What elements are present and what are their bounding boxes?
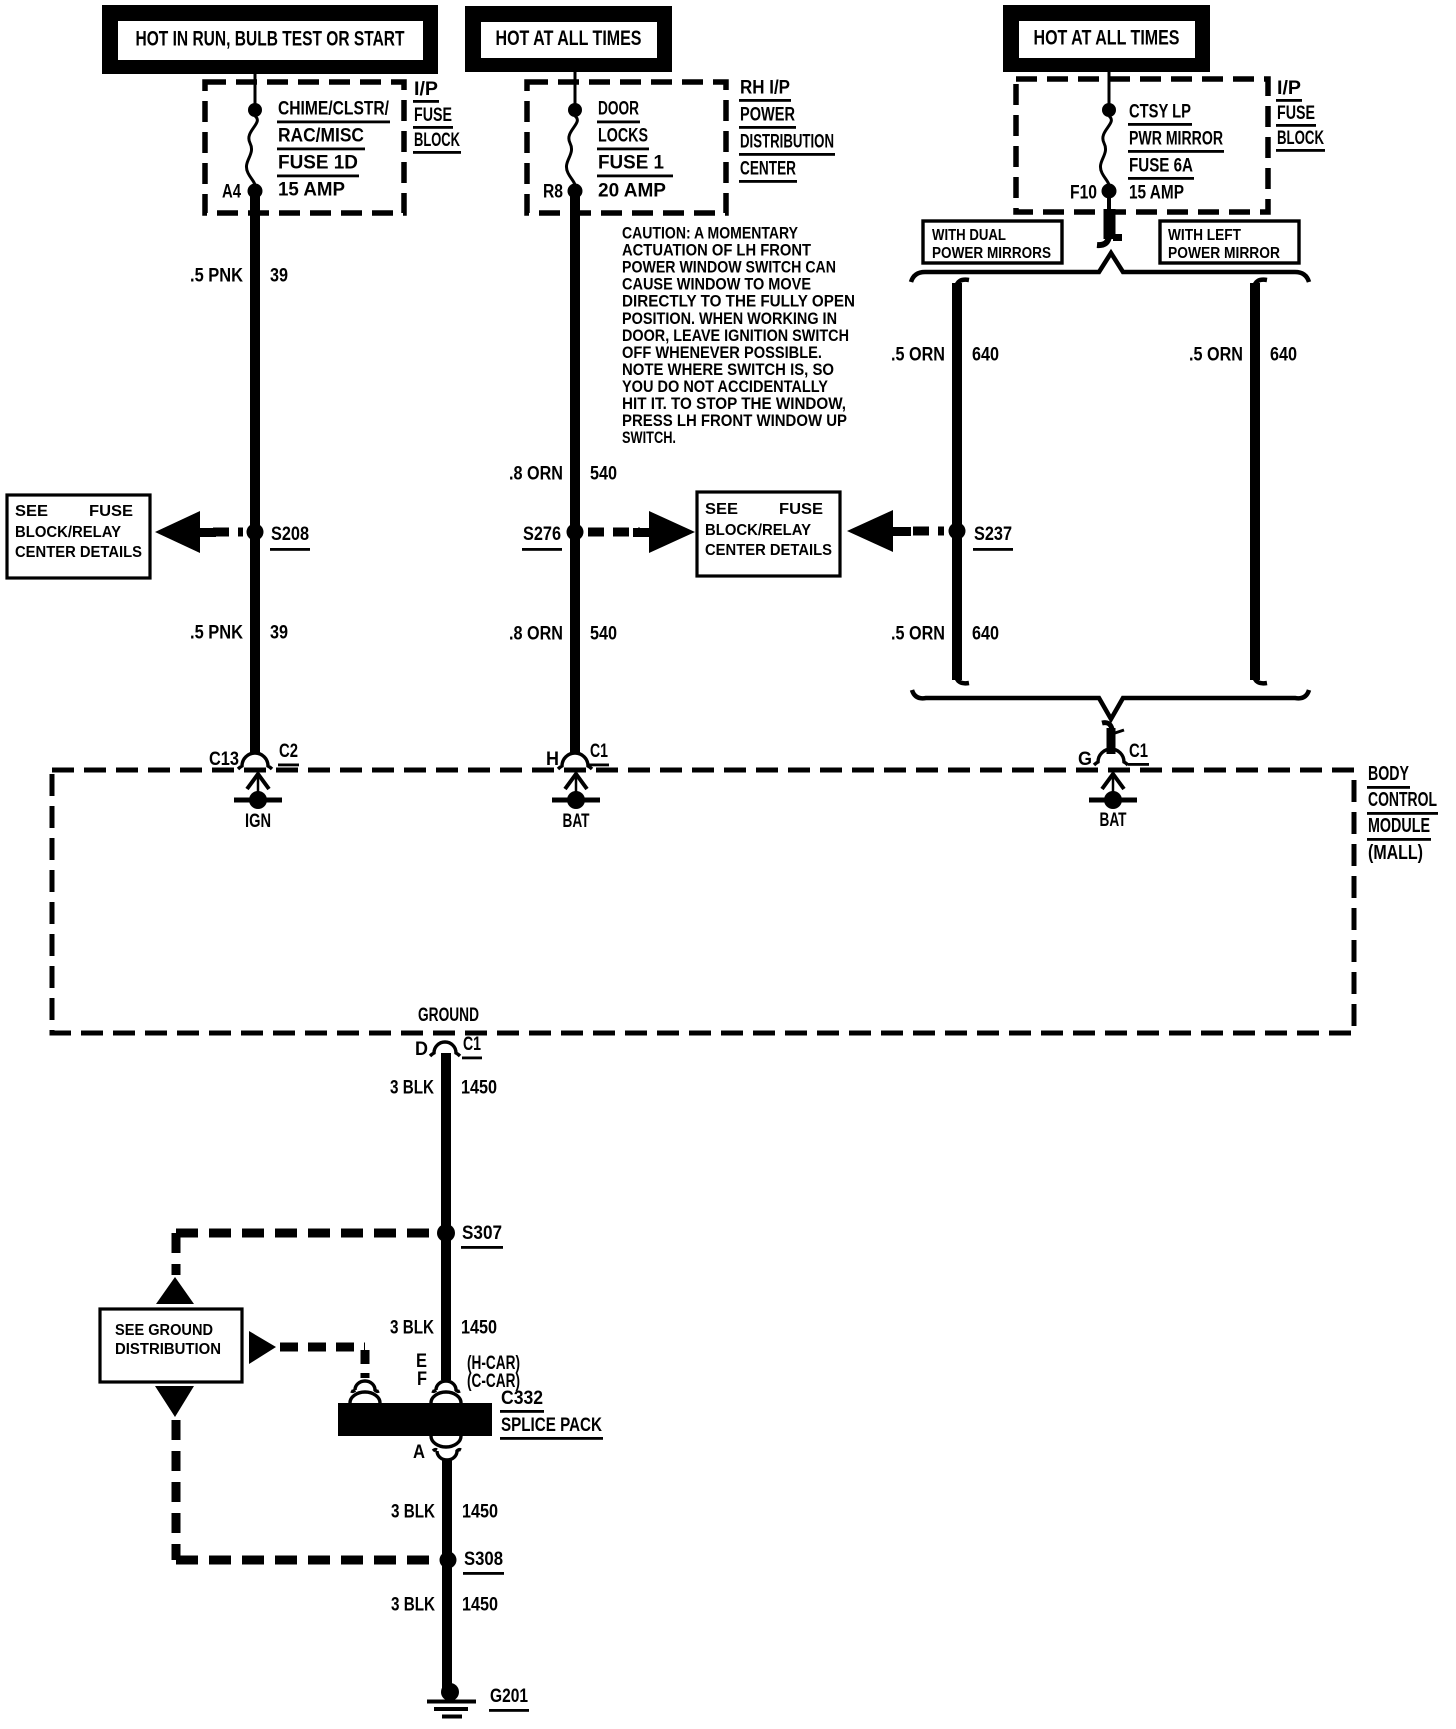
- svg-text:1450: 1450: [462, 1502, 498, 1523]
- svg-text:3 BLK: 3 BLK: [390, 1318, 434, 1339]
- svg-text:.5 PNK: .5 PNK: [190, 266, 243, 287]
- I/P fuse block dashed boundary (DOOR LOCKS FUSE 1): [527, 82, 726, 213]
- wire .5 ORN 640 (left power mirror branch): [1254, 280, 1267, 684]
- svg-text:540: 540: [590, 464, 617, 485]
- svg-text:POWER MIRRORS: POWER MIRRORS: [932, 245, 1051, 262]
- svg-text:.5 PNK: .5 PNK: [190, 623, 243, 644]
- connector stub below fuse 6A: [1097, 196, 1122, 245]
- splice S276 junction: [567, 524, 584, 541]
- connector C332 pin E terminal arcs: [350, 1381, 380, 1403]
- svg-text:CENTER DETAILS: CENTER DETAILS: [15, 544, 142, 561]
- svg-text:POWER: POWER: [740, 105, 795, 126]
- svg-text:BAT: BAT: [1100, 810, 1127, 831]
- svg-text:C332: C332: [501, 1388, 543, 1409]
- svg-text:CENTER DETAILS: CENTER DETAILS: [705, 542, 832, 559]
- svg-text:C1: C1: [1129, 741, 1148, 762]
- connector C2 pin C13 female terminal at BCM: [238, 753, 272, 769]
- svg-text:CTSY LP: CTSY LP: [1129, 102, 1191, 123]
- svg-text:A: A: [413, 1442, 425, 1463]
- svg-text:S208: S208: [271, 524, 309, 545]
- arrow to SEE FUSE BLOCK/RELAY CENTER DETAILS (left): [155, 511, 200, 553]
- svg-text:SPLICE PACK: SPLICE PACK: [501, 1415, 602, 1436]
- svg-text:.8 ORN: .8 ORN: [509, 464, 563, 485]
- arrow right from SEE GROUND DISTRIBUTION box (to C332 pin E): [249, 1331, 276, 1364]
- svg-text:1450: 1450: [461, 1078, 497, 1099]
- splice S307 junction: [437, 1224, 455, 1242]
- svg-text:SEE: SEE: [15, 503, 48, 520]
- male connector terminal G into BCM C1: [1102, 723, 1124, 754]
- svg-text:.5 ORN: .5 ORN: [891, 624, 945, 645]
- svg-text:HOT IN RUN, BULB TEST OR START: HOT IN RUN, BULB TEST OR START: [136, 28, 405, 51]
- svg-text:39: 39: [270, 623, 288, 644]
- dashed reference line from S237 to fuse block details: [913, 527, 944, 536]
- svg-text:H: H: [546, 749, 559, 770]
- svg-text:GROUND: GROUND: [418, 1005, 479, 1026]
- arrow to SEE FUSE BLOCK/RELAY CENTER DETAILS (middle, from S237): [847, 510, 893, 552]
- svg-text:FUSE 1D: FUSE 1D: [278, 153, 358, 174]
- svg-text:R8: R8: [543, 182, 563, 203]
- svg-text:FUSE: FUSE: [89, 503, 133, 520]
- dashed reference line from S208 to fuse block details: [213, 528, 243, 537]
- dashed reference line from S276 to fuse block details: [588, 528, 640, 537]
- svg-text:BLOCK: BLOCK: [414, 130, 460, 151]
- svg-text:RAC/MISC: RAC/MISC: [278, 126, 364, 147]
- svg-text:DISTRIBUTION: DISTRIBUTION: [115, 1341, 221, 1358]
- svg-text:SEE: SEE: [705, 501, 738, 518]
- svg-text:F10: F10: [1070, 183, 1097, 204]
- BCM internal BAT feed terminal (640): [1089, 774, 1137, 809]
- I/P fuse block dashed boundary (CTSY LP fuse): [1016, 79, 1268, 212]
- svg-text:WITH LEFT: WITH LEFT: [1168, 227, 1241, 244]
- wire circuit 540 .8 ORN from fuse 1 to BCM C1 pin H: [570, 195, 580, 753]
- svg-text:S237: S237: [974, 524, 1012, 545]
- svg-text:MODULE: MODULE: [1368, 815, 1430, 837]
- svg-text:(MALL): (MALL): [1368, 842, 1423, 864]
- BODY CONTROL MODULE dashed outline: [52, 770, 1354, 1033]
- svg-text:BLOCK/RELAY: BLOCK/RELAY: [15, 524, 121, 541]
- connector C1 pin D ground terminal: [430, 1042, 460, 1056]
- svg-text:640: 640: [972, 624, 999, 645]
- dashed reference line from S307 to ground distribution: [176, 1233, 432, 1275]
- svg-text:CONTROL: CONTROL: [1368, 789, 1437, 811]
- svg-text:FUSE: FUSE: [414, 105, 452, 126]
- option box WITH LEFT POWER MIRROR: [1160, 221, 1299, 263]
- svg-text:POWER MIRROR: POWER MIRROR: [1168, 245, 1280, 262]
- svg-text:1450: 1450: [462, 1595, 498, 1616]
- option box WITH DUAL POWER MIRRORS: [923, 221, 1062, 263]
- svg-text:WITH DUAL: WITH DUAL: [932, 227, 1006, 244]
- reference box SEE FUSE BLOCK/RELAY CENTER DETAILS (left): [7, 495, 150, 578]
- I/P fuse block dashed boundary (CHIME fuse): [205, 82, 404, 213]
- connector C332 pin F terminal arcs: [431, 1381, 461, 1403]
- wire circuit 1450 3 BLK from C332 pin A to G201: [442, 1460, 452, 1688]
- svg-text:3 BLK: 3 BLK: [390, 1078, 434, 1099]
- svg-text:3 BLK: 3 BLK: [391, 1502, 435, 1523]
- svg-text:IGN: IGN: [245, 811, 271, 832]
- fuse CHIME/CLSTR/RAC/MISC FUSE 1D 15A: [246, 72, 262, 199]
- svg-text:LOCKS: LOCKS: [598, 126, 648, 147]
- svg-text:FUSE: FUSE: [1277, 103, 1315, 124]
- svg-text:640: 640: [972, 345, 999, 366]
- svg-text:39: 39: [270, 266, 288, 287]
- svg-text:20 AMP: 20 AMP: [598, 181, 666, 202]
- connector C1 pin H female terminal at BCM: [558, 753, 592, 769]
- svg-text:I/P: I/P: [1277, 78, 1301, 99]
- power feed banner: HOT AT ALL TIMES (left): [465, 6, 672, 72]
- svg-text:G: G: [1078, 749, 1092, 770]
- svg-text:FUSE: FUSE: [779, 501, 823, 518]
- fuse CTSY LP/PWR MIRROR FUSE 6A 15A: [1100, 72, 1116, 199]
- dashed reference line from ground distribution to C332 pin E: [280, 1347, 365, 1378]
- svg-text:S307: S307: [462, 1223, 502, 1244]
- splice S308 junction: [440, 1552, 457, 1569]
- svg-text:HOT AT ALL TIMES: HOT AT ALL TIMES: [496, 27, 642, 50]
- fuse DOOR LOCKS FUSE 1 20A: [566, 72, 582, 199]
- BCM internal BAT feed terminal (540): [552, 774, 600, 809]
- svg-text:.5 ORN: .5 ORN: [891, 345, 945, 366]
- ground G201 symbol: [427, 1683, 476, 1717]
- wire .5 ORN 640 (dual power mirrors branch): [956, 280, 969, 684]
- arrow down from SEE GROUND DISTRIBUTION box (to S308 line): [155, 1386, 194, 1417]
- svg-text:PWR MIRROR: PWR MIRROR: [1129, 129, 1223, 150]
- connector C332 pin A terminal arcs: [431, 1436, 461, 1460]
- svg-text:C13: C13: [209, 749, 239, 770]
- reference box SEE FUSE BLOCK/RELAY CENTER DETAILS (middle): [697, 492, 840, 576]
- svg-text:CHIME/CLSTR/: CHIME/CLSTR/: [278, 99, 390, 120]
- wire circuit 1450 3 BLK from BCM pin D to splice pack C332: [441, 1053, 451, 1380]
- svg-text:CENTER: CENTER: [740, 159, 796, 180]
- svg-text:15 AMP: 15 AMP: [278, 180, 345, 201]
- svg-text:15 AMP: 15 AMP: [1129, 183, 1184, 204]
- svg-text:DISTRIBUTION: DISTRIBUTION: [740, 132, 834, 153]
- svg-text:.5 ORN: .5 ORN: [1189, 345, 1243, 366]
- svg-text:C2: C2: [279, 741, 298, 762]
- splice pack C332 body: [338, 1403, 492, 1436]
- svg-text:I/P: I/P: [414, 79, 438, 100]
- svg-text:BODY: BODY: [1368, 763, 1409, 785]
- svg-text:.8 ORN: .8 ORN: [509, 624, 563, 645]
- splice S237 junction: [949, 523, 966, 540]
- svg-text:BLOCK/RELAY: BLOCK/RELAY: [705, 522, 811, 539]
- svg-text:RH I/P: RH I/P: [740, 78, 790, 99]
- svg-text:S276: S276: [523, 524, 561, 545]
- svg-text:C1: C1: [590, 741, 608, 762]
- svg-text:C1: C1: [463, 1034, 481, 1055]
- BCM internal IGN feed terminal: [234, 774, 282, 809]
- dashed reference line from ground distribution down to S308: [176, 1420, 432, 1560]
- reference box SEE GROUND DISTRIBUTION: [100, 1309, 242, 1382]
- svg-text:G201: G201: [490, 1686, 528, 1707]
- svg-text:FUSE 6A: FUSE 6A: [1129, 156, 1193, 177]
- svg-text:SWITCH.: SWITCH.: [622, 428, 676, 447]
- arrow to SEE FUSE BLOCK/RELAY CENTER DETAILS (middle, from S276): [649, 511, 695, 553]
- svg-text:BAT: BAT: [563, 811, 590, 832]
- svg-text:HOT AT ALL TIMES: HOT AT ALL TIMES: [1034, 27, 1180, 50]
- svg-text:SEE GROUND: SEE GROUND: [115, 1322, 213, 1339]
- svg-text:540: 540: [590, 624, 617, 645]
- svg-text:1450: 1450: [461, 1318, 497, 1339]
- connector C1 pin G female terminal at BCM: [1094, 749, 1128, 765]
- svg-text:A4: A4: [222, 182, 241, 203]
- wire circuit 39 .5 PNK from fuse 1D to BCM C2 pin C13: [250, 195, 260, 753]
- svg-text:BLOCK: BLOCK: [1277, 128, 1324, 149]
- svg-text:640: 640: [1270, 345, 1297, 366]
- svg-text:F: F: [417, 1369, 427, 1390]
- power feed banner: HOT IN RUN, BULB TEST OR START: [102, 5, 438, 74]
- power feed banner: HOT AT ALL TIMES (right): [1003, 5, 1210, 72]
- branch brace (bottom) merging mirror feeds: [912, 690, 1309, 719]
- svg-text:FUSE 1: FUSE 1: [598, 153, 664, 174]
- splice S208 junction: [247, 524, 264, 541]
- svg-text:S308: S308: [464, 1549, 503, 1570]
- caution note text block: [622, 224, 855, 448]
- branch brace (top) joining optional mirror feeds: [911, 253, 1309, 282]
- svg-text:DOOR: DOOR: [598, 99, 639, 120]
- arrow up from SEE GROUND DISTRIBUTION box (to S307 line): [156, 1277, 194, 1304]
- svg-text:3 BLK: 3 BLK: [391, 1595, 435, 1616]
- svg-text:D: D: [415, 1039, 428, 1060]
